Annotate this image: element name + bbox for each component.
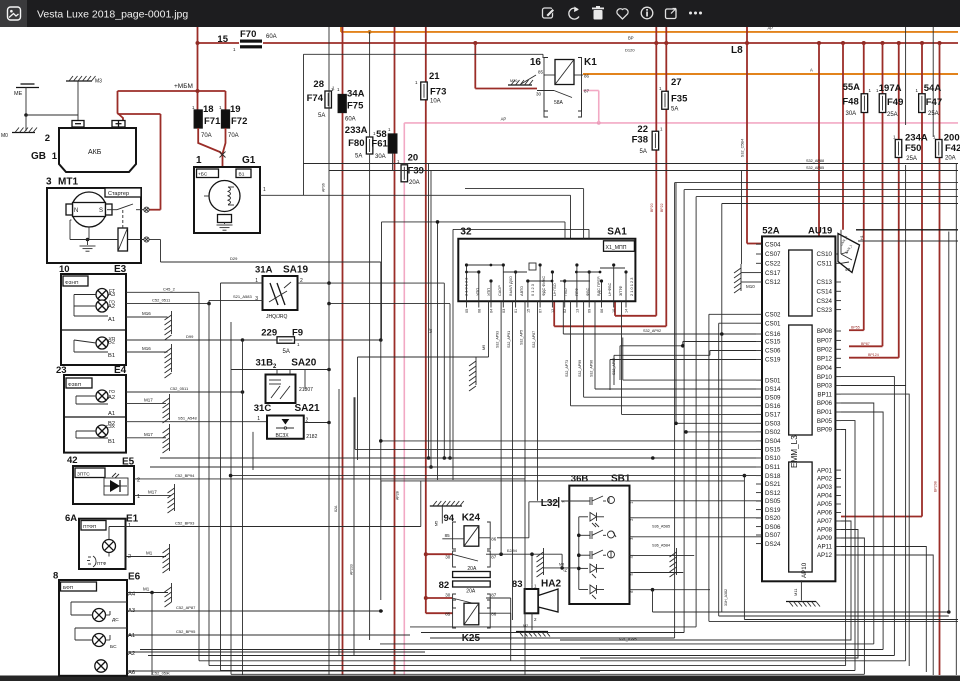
fuse 20A upper [453,566,491,578]
wire E5 pin1 to M17 [134,489,171,500]
svg-text:85: 85 [538,70,544,75]
svg-text:58A: 58A [554,100,564,106]
wire K25 87 drop [510,640,512,661]
right vertical x956 [955,164,957,676]
svg-text:AP: AP [501,117,507,122]
svg-text:6A: 6A [65,513,77,524]
svg-text:5A: 5A [318,113,325,119]
svg-text:AP233: AP233 [350,564,354,575]
bottom bus y674 [231,673,864,675]
red vertical x819 to ECU top [818,43,820,236]
svg-text:A2: A2 [108,304,115,310]
svg-text:ФЗВП: ФЗВП [68,382,82,388]
svg-text:AP07: AP07 [817,518,833,525]
wire L32 to K24 86 [497,502,559,538]
red vertical x342 [342,27,344,675]
wire +MBM bus [118,83,226,93]
starter motor [66,192,112,227]
middle drop x675 [430,183,958,638]
fuse F38 [632,124,663,155]
svg-text:ВДС ПРЕР.: ВДС ПРЕР. [596,276,601,296]
svg-text:0 1 2 3: 0 1 2 3 [530,284,535,296]
svg-text:ВСЗХ: ВСЗХ [276,433,290,439]
wire SB1 feeds right side [653,232,959,620]
switch SA20 labels [256,358,317,371]
ground M5 K24 [430,501,464,526]
ground right of SB1 [670,548,677,577]
lamp unit E1 labels [65,513,139,525]
left bundle vertical x231 [230,322,232,674]
relay K1 pin85 [538,70,555,76]
fuse 20A lower [453,581,491,595]
svg-text:S32_AP5: S32_AP5 [520,330,524,345]
wire bus y163 [304,163,959,165]
svg-text:F35: F35 [671,94,688,105]
SB1 row2 switch [579,530,616,539]
generator pin 1 wire [260,187,571,239]
svg-text:25A: 25A [887,112,898,118]
svg-text:D29: D29 [230,256,238,261]
wire E3 B2 D99 [126,334,244,342]
wire K1 feed [475,43,537,89]
svg-text:AP09: AP09 [817,535,833,542]
rotated label AP28 [396,491,400,500]
bottom bus y649 [140,649,883,651]
svg-text:HA2: HA2 [541,579,561,590]
svg-text:F74: F74 [307,93,324,104]
svg-text:15: 15 [217,34,228,45]
connector SA1 internal contacts [465,263,628,301]
svg-text:S32_AP88: S32_AP88 [806,159,824,163]
svg-text:1: 1 [137,494,140,500]
svg-text:229: 229 [261,328,277,339]
relay K24 coil [464,526,479,546]
svg-text:F75: F75 [347,101,364,112]
fuse F48 [842,82,871,117]
generator G1 box [194,167,260,233]
svg-text:CS14: CS14 [817,289,833,296]
label L8 [625,36,743,57]
orange bus A from relay K1 [583,68,958,75]
svg-text:DS05: DS05 [765,498,781,505]
svg-text:31C: 31C [254,403,272,414]
svg-text:21: 21 [429,71,440,82]
SA1 drop x595 to DS14 [590,301,757,389]
svg-text:AP36: AP36 [322,183,326,192]
svg-text:AP11: AP11 [817,544,832,551]
lamp E1 [103,540,116,553]
generator G1 labels [196,155,256,166]
toolbar icon more [689,12,702,15]
wire E3 A3 C45_2 [126,286,199,292]
toolbar [0,0,960,27]
svg-text:EMM_L3: EMM_L3 [790,435,799,468]
ECU AP10 pin [801,562,808,578]
svg-text:M16: M16 [142,311,151,316]
ground M9 [469,357,476,391]
wire vertical x339 [338,389,340,655]
svg-text:BP10: BP10 [817,374,833,381]
svg-text:Б2/94: Б2/94 [507,549,517,553]
left bundle vertical x220 [220,283,222,671]
left bundle vertical x242 [242,340,244,675]
wire DS18 long y475 [229,474,756,478]
svg-text:3: 3 [630,538,634,540]
svg-text:D120: D120 [625,48,635,53]
svg-text:BP22: BP22 [660,203,664,212]
svg-text:30: 30 [445,592,451,597]
svg-text:F50: F50 [905,143,921,154]
svg-text:32: 32 [460,227,472,238]
svg-text:BP01: BP01 [817,409,833,416]
right vertical x905 [905,27,907,386]
wire AP08 route [580,530,858,659]
wire E6 A4 to M1 [127,587,168,598]
wire BP06 route [841,403,874,644]
switch SA19 labels [255,265,308,276]
SA1 drop S32_AP87 [532,301,538,501]
svg-text:CS04: CS04 [765,241,781,248]
svg-text:DS07: DS07 [765,532,781,539]
svg-text:DS15: DS15 [765,447,781,454]
svg-text:AP01: AP01 [817,467,833,474]
svg-text:14: 14 [625,309,629,313]
svg-text:САОР: САОР [497,285,502,296]
fuse F72 [219,104,247,139]
red vertical x425 to relays K24 K25 [424,27,453,613]
svg-text:DS21: DS21 [765,481,781,488]
wire bus y221 [382,222,566,340]
right vertical x933 [932,27,934,137]
svg-text:2 1 0 1 2 3: 2 1 0 1 2 3 [629,278,634,296]
svg-text:УПП: УПП [486,288,491,296]
lamp E6 BS [93,634,118,651]
wire DS02 [253,430,756,470]
left bundle vertical x209 [208,300,210,665]
lamp unit E1 box [79,519,126,569]
svg-text:22: 22 [637,124,648,135]
svg-text:CS22: CS22 [765,261,781,268]
SB1 row1 switch [561,496,615,505]
svg-text:S32_AP85: S32_AP85 [806,166,824,170]
relay K25 pin86 [479,611,511,640]
red vertical x396 [394,27,396,675]
svg-text:F70: F70 [240,29,256,40]
wire generator feed [118,114,161,210]
svg-text:1: 1 [630,502,634,504]
svg-text:06: 06 [600,309,604,313]
fuse F49 [876,83,903,118]
relay K25 brackets [453,600,491,628]
SB1 row5 led [579,585,604,599]
svg-text:АКБ: АКБ [88,149,102,156]
svg-text:AP06: AP06 [817,510,833,517]
svg-text:M1: M1 [143,587,150,592]
wire vertical x437 [436,220,440,480]
svg-text:DS10: DS10 [765,455,781,462]
svg-text:07: 07 [539,309,543,313]
svg-text:CS24: CS24 [817,298,833,305]
svg-text:CS11: CS11 [817,261,833,268]
svg-text:М3: М3 [95,79,102,85]
ground M16 lower [165,344,172,378]
svg-text:1: 1 [257,416,260,422]
svg-text:УПП: УПП [475,288,480,296]
SB1 internal bus [577,517,581,590]
svg-text:F47: F47 [926,97,942,108]
svg-text:S32_AP91: S32_AP91 [507,331,511,348]
svg-text:ПТФП: ПТФП [83,524,97,530]
node ME junction [24,113,28,117]
svg-text:M9: M9 [482,345,486,350]
svg-text:16: 16 [530,57,542,68]
svg-text:3: 3 [46,177,52,188]
svg-text:Д: Д [563,569,567,572]
red vertical x843 to ECU top [842,43,844,230]
wire CS15 [620,342,756,381]
svg-text:AP12: AP12 [817,552,833,559]
svg-text:F38: F38 [632,135,648,146]
switch SA21 labels [254,403,320,414]
ground M1 E6 [165,583,172,607]
wire fuse outputs to generator node [198,128,225,167]
bottom bar [0,676,960,681]
wire ME to battery minus [26,114,78,116]
fuse F39 [397,153,424,187]
svg-text:87: 87 [491,592,497,597]
L32 label [541,497,566,509]
svg-text:70A: 70A [228,133,239,139]
svg-text:BP55: BP55 [851,326,860,330]
svg-text:30A: 30A [846,111,857,117]
lamp E4 SZX [96,421,116,445]
toolbar icon edit [543,8,555,18]
fuse F75 [331,87,365,123]
svg-text:K1: K1 [584,57,597,68]
ground M17 lower [163,424,170,453]
svg-text:15: 15 [526,309,530,313]
relay K1 bracket [544,58,582,112]
wire E4 A2 [126,386,244,394]
SB1 row4 led [579,564,604,578]
rotated label S31_A385 [619,637,637,641]
E5 diode symbol [104,473,128,495]
bottom bus y670 [221,670,856,672]
ground M10 [734,171,756,294]
wire DS04 long [379,439,756,443]
svg-text:AP03: AP03 [817,484,833,491]
svg-text:F42: F42 [945,143,960,154]
red vertical F47 line to AP06 [841,43,922,517]
svg-text:52A: 52A [762,226,780,237]
svg-text:CS10: CS10 [817,251,833,258]
wire vertical x354 [353,397,355,655]
lamp unit E6 labels [53,571,141,583]
starter MT1 box [47,188,141,263]
wire battery feed vertical [197,27,199,110]
svg-text:2: 2 [128,554,131,560]
svg-text:CS07: CS07 [765,251,781,258]
pin E6 A2 [127,651,425,657]
SB1 right pins [630,501,635,593]
svg-text:ГБО: ГБО [563,288,568,296]
wire main red bus y43 with F70 [196,41,959,45]
svg-text:ЗПТФ: ЗПТФ [618,286,623,296]
svg-text:DS11: DS11 [765,464,781,471]
starter ground [70,220,118,251]
svg-text:B2: B2 [108,340,115,346]
svg-text:S36_A5B4: S36_A5B4 [652,544,670,548]
svg-text:S32_C5B4: S32_C5B4 [741,139,745,157]
wire AP09 route [841,538,864,674]
rotated label AP36 [322,183,326,192]
svg-text:86: 86 [491,537,497,542]
toolbar app tile [0,0,27,27]
svg-text:08: 08 [477,309,481,313]
svg-text:U+ФБС: U+ФБС [607,282,612,296]
svg-text:BP20: BP20 [650,203,654,212]
svg-text:M17: M17 [144,432,153,437]
lamp E6 DS [93,609,120,624]
bottom bus y655 [148,655,894,657]
svg-text:234A: 234A [905,133,928,144]
wire vertical D29 drop [380,340,382,600]
wire vertical F61 drop [392,153,394,171]
wire x329 to x450 segment [327,302,452,460]
starter pin 2 [128,237,150,242]
wire BP09 route [841,430,846,666]
middle drop x683 [421,190,958,633]
ECU inner AP box [789,435,812,572]
svg-text:F61: F61 [371,139,388,150]
svg-text:C52_0511: C52_0511 [152,298,171,303]
SA1 drop S32_AP93 [496,301,502,554]
svg-text:18: 18 [203,104,214,115]
svg-text:DS01: DS01 [765,377,781,384]
wire DS18 vertical x744 [743,474,747,620]
relay K1 labels [530,57,597,68]
svg-text:M10: M10 [746,284,755,289]
ground M3 [66,76,102,85]
relay K25 contact [445,592,510,640]
SA1 drop S32_AP5 [520,301,526,675]
svg-text:CS01: CS01 [765,320,781,327]
wire DS03 [674,183,756,426]
svg-text:13: 13 [575,309,579,313]
svg-text:B1: B1 [108,353,115,359]
starter MT1 label [46,177,78,188]
svg-text:5: 5 [630,573,634,575]
svg-text:2: 2 [630,519,634,521]
fuse F42 [933,133,960,162]
svg-text:04: 04 [490,309,494,313]
svg-text:5A: 5A [355,154,362,160]
wire M3 to battery minus [77,81,79,121]
toolbar icon share [666,9,677,19]
wire E6 A6 [127,670,600,676]
svg-text:F48: F48 [842,97,858,108]
svg-text:DS02: DS02 [765,429,781,436]
ECU AU19 labels [762,226,832,237]
svg-text:M2: M2 [523,624,528,628]
wire E4 B2 [126,416,267,422]
svg-text:N: N [74,208,78,214]
svg-text:МТ1: МТ1 [58,177,78,188]
svg-text:DS09: DS09 [765,394,781,401]
wire DS10 long y458 [160,456,756,460]
svg-text:3: 3 [255,296,258,302]
svg-text:BP04: BP04 [817,365,833,372]
svg-text:A2: A2 [108,395,115,401]
rotated label AP233 [350,564,354,575]
E3 internal wiring [74,295,108,353]
lamp unit E5 labels [67,455,135,468]
red vertical F38 line to SA1 [615,27,656,316]
svg-text:AP08: AP08 [817,527,833,534]
svg-text:AP02: AP02 [817,476,833,483]
ground M11 [786,580,820,606]
red vertical F50 line to BP12 [849,43,899,358]
ECU right pin labels [817,251,841,559]
fuse F70 [217,29,276,52]
horn pin2 ground M2 [516,613,550,636]
switch SA21 box [267,416,318,441]
svg-text:1: 1 [52,151,58,162]
wire CS19 [610,360,756,391]
relay K25 coil [464,603,479,625]
svg-text:5A: 5A [283,349,290,355]
svg-text:M5: M5 [435,521,439,526]
svg-text:S21_A583: S21_A583 [233,294,252,299]
fuse F74 [307,79,335,119]
red vertical F35 line to SA1 [554,27,666,326]
svg-text:A3: A3 [108,292,115,298]
svg-text:5A: 5A [640,149,647,155]
wire E3 B1 to M16 [126,346,168,352]
svg-text:F71: F71 [204,116,221,127]
svg-text:54A: 54A [924,83,942,94]
svg-text:85: 85 [445,533,451,538]
svg-text:A1: A1 [108,411,115,417]
wire AP07 route [560,521,851,640]
wire BP03 route [841,386,906,661]
svg-text:G1: G1 [242,155,256,166]
CAN bus thick line [841,230,958,254]
svg-text:BP09: BP09 [817,427,833,434]
svg-text:ЗПТС: ЗПТС [77,472,90,478]
wire DS01 [612,338,756,381]
toolbar icon rotate [569,7,579,20]
svg-text:DS20: DS20 [765,515,781,522]
svg-text:19: 19 [230,104,241,115]
svg-text:DS12: DS12 [765,490,781,497]
svg-text:42: 42 [67,455,78,466]
svg-text:20A: 20A [945,156,956,162]
svg-text:S32_AP96: S32_AP96 [590,360,594,377]
svg-text:JHQ/JRQ: JHQ/JRQ [266,314,288,320]
switch SA21 pin1 [257,416,260,422]
wire E1 pin1 [109,481,421,540]
switch SA19 pin1 [221,278,263,284]
bottom bus y660 [199,660,906,662]
wire E3 A1 to M16 [126,311,168,317]
svg-text:20A: 20A [466,589,476,595]
SA1 drop x583 to DS09 [578,301,756,397]
svg-text:30: 30 [536,92,542,97]
relay K24 labels [444,513,481,525]
relay K25 labels [439,580,481,644]
starter relay coil [118,210,128,251]
